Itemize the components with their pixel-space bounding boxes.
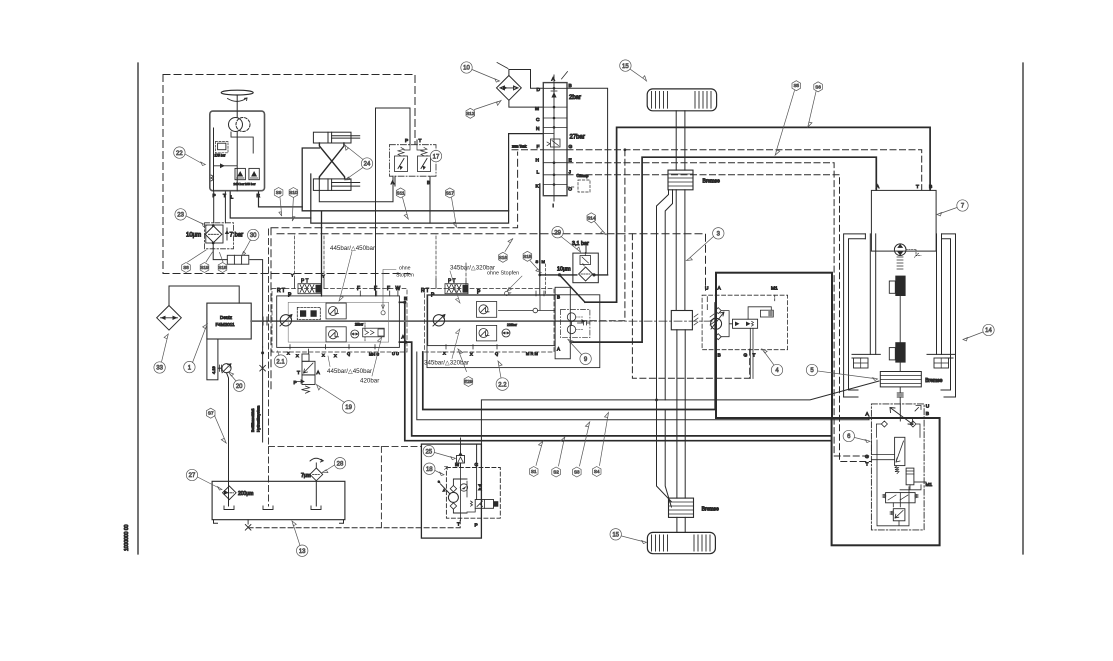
heavy line A front axle [570, 157, 876, 342]
balloon 22 [174, 147, 185, 158]
svg-text:Befüllanschluß: Befüllanschluß [251, 408, 255, 432]
heavy line rear axle B [399, 302, 831, 440]
svg-text:Hydrauliksystem: Hydrauliksystem [257, 406, 261, 432]
svg-text:ohne: ohne [399, 266, 411, 272]
svg-text:G: G [744, 353, 748, 359]
hex S13 [292, 187, 294, 189]
hex S16 [499, 252, 508, 262]
balloon 24 [361, 158, 372, 169]
svg-text:445bar/△450bar: 445bar/△450bar [327, 368, 372, 375]
svg-text:S15: S15 [523, 254, 532, 259]
pilot dashed drop at x=623.5 to divider [584, 150, 625, 321]
svg-text:Bremse: Bremse [702, 507, 719, 513]
svg-text:2.2: 2.2 [498, 382, 507, 388]
svg-text:L: L [537, 170, 540, 176]
svg-text:29: 29 [554, 230, 561, 236]
svg-text:W: W [396, 286, 401, 292]
svg-text:S7: S7 [208, 411, 214, 416]
balloon 13 [297, 545, 308, 556]
valve bank 2.2 [421, 234, 555, 357]
svg-text:S14: S14 [587, 215, 596, 220]
engine 1 Deutz [207, 303, 251, 380]
hexagon S-labels [182, 81, 823, 477]
balloon 15 bottom [610, 529, 621, 540]
balloons and hex labels [154, 60, 994, 557]
svg-text:2bar: 2bar [569, 95, 581, 101]
svg-text:P: P [405, 138, 408, 144]
svg-text:F4M2011: F4M2011 [216, 322, 236, 327]
balloon 20 [234, 380, 245, 391]
balloon 15 top [620, 60, 631, 71]
svg-text:S9: S9 [276, 190, 282, 195]
svg-text:zum Tank: zum Tank [512, 145, 527, 149]
orbitrol steering unit 22 [210, 111, 265, 201]
balloon 2.1 [274, 355, 287, 368]
central manifold 12 [512, 75, 590, 209]
heavy line rear axle A [399, 342, 831, 436]
pilot dashed to motor4 M1 [632, 234, 749, 378]
svg-text:C: C [536, 117, 540, 123]
svg-text:G: G [865, 454, 869, 460]
balloon 19 [342, 401, 355, 414]
svg-text:18: 18 [426, 467, 433, 473]
orbitrol T drop [224, 192, 226, 223]
hex S6 [814, 82, 823, 92]
svg-text:7µm: 7µm [301, 473, 311, 479]
filter 23 [186, 223, 243, 249]
hex S19 [200, 263, 209, 273]
hex S7 [206, 408, 215, 418]
pilot dashed line G zum Tank [512, 150, 922, 190]
svg-text:A: A [552, 77, 556, 83]
hex S17 [446, 188, 455, 198]
shaft to rear wheel [677, 517, 685, 532]
tank return dashed to hand pump [248, 521, 460, 528]
hex S8 [182, 263, 191, 273]
valve17 P routing [376, 108, 411, 145]
shaft brake to gearbox [676, 190, 685, 311]
front wheel top 15 [647, 89, 716, 111]
hex S4 [592, 467, 601, 477]
svg-text:A: A [876, 184, 880, 190]
balloon 7 [957, 200, 968, 211]
svg-text:T: T [297, 370, 300, 376]
brake pilot line to brakes [481, 381, 879, 444]
svg-text:S4: S4 [594, 469, 600, 474]
balloon 1 [184, 361, 195, 372]
svg-text:S16: S16 [499, 255, 508, 260]
fill line [251, 321, 265, 442]
svg-text:Q: Q [347, 351, 350, 356]
balloon 23 [175, 209, 186, 220]
balloon 10 [461, 62, 472, 73]
svg-text:20: 20 [236, 384, 243, 390]
svg-text:P: P [294, 380, 297, 386]
svg-text:P T: P T [448, 279, 456, 285]
svg-text:15: 15 [622, 64, 629, 70]
hex S5 [792, 81, 801, 91]
hex S3 [573, 467, 582, 477]
shaft gearbox to rear brake [677, 330, 685, 498]
svg-text:13: 13 [299, 549, 306, 555]
svg-text:H: H [536, 158, 540, 164]
filter23 to comp30 [213, 248, 262, 347]
hex S1 [529, 467, 538, 477]
frame left border line [137, 63, 139, 554]
svg-text:22: 22 [176, 151, 183, 157]
rear axle motor block 4 [702, 273, 832, 418]
svg-text:29bar: 29bar [355, 323, 364, 327]
svg-text:M1: M1 [926, 482, 933, 488]
svg-text:F: F [374, 286, 377, 292]
svg-text:9: 9 [584, 357, 588, 363]
pilot dashed line E to valve6 G [567, 163, 871, 456]
svg-text:33: 33 [156, 366, 163, 372]
hydrostatic unit enclosure box [427, 295, 600, 368]
svg-text:X: X [334, 353, 337, 358]
hex S18 [218, 263, 227, 273]
svg-text:S12: S12 [466, 111, 475, 116]
hydrostat dashed enclosure outer [271, 152, 706, 390]
svg-text:X: X [287, 351, 290, 356]
heavy line rear loop drive [423, 303, 715, 410]
bank2.1 port ticks and labels [290, 234, 398, 349]
svg-text:T: T [457, 522, 460, 528]
hand pump unit 18 [421, 438, 500, 538]
valve bank 2.1 [272, 234, 407, 358]
balloon 28 [334, 458, 345, 469]
svg-text:445bar/△450bar: 445bar/△450bar [330, 245, 375, 252]
front brake 5 [880, 372, 942, 405]
svg-text:T: T [223, 193, 226, 199]
svg-text:228bar: 228bar [507, 323, 518, 327]
svg-text:X: X [470, 352, 473, 357]
svg-text:175 bar: 175 bar [215, 154, 227, 158]
svg-text:Y: Y [291, 273, 294, 278]
svg-text:4: 4 [775, 368, 779, 374]
svg-text:X: X [322, 353, 325, 358]
steering cylinders 24 [313, 132, 359, 190]
orbitrol L line to cylinder [230, 192, 311, 218]
svg-text:Öltemp: Öltemp [577, 174, 589, 178]
balloon 27 [186, 469, 197, 480]
svg-text:D: D [537, 87, 541, 93]
svg-text:S2: S2 [553, 470, 559, 475]
svg-text:X: X [443, 351, 446, 356]
brake valve box 6 [832, 404, 940, 546]
svg-text:S3: S3 [574, 470, 580, 475]
svg-text:7: 7 [961, 204, 965, 210]
svg-text:24: 24 [364, 162, 371, 168]
svg-text:28: 28 [337, 461, 344, 467]
svg-text:F: F [387, 286, 390, 292]
pilot dashed line J to valve6 T [567, 175, 871, 462]
svg-text:6: 6 [847, 434, 851, 440]
svg-text:F: F [537, 144, 540, 150]
svg-text:A: A [557, 347, 560, 352]
svg-text:23: 23 [177, 213, 184, 219]
svg-text:R: R [257, 193, 261, 199]
frame right border line [1022, 63, 1024, 554]
steering wheel [221, 90, 253, 111]
svg-text:Bremse: Bremse [925, 378, 942, 384]
svg-text:B: B [718, 353, 721, 359]
svg-text:S19: S19 [200, 265, 209, 270]
svg-text:S5: S5 [793, 83, 799, 88]
svg-text:30: 30 [250, 233, 257, 239]
balloon 33 [154, 362, 165, 373]
svg-text:1: 1 [188, 365, 192, 371]
svg-text:19: 19 [345, 405, 352, 411]
svg-text:M1: M1 [771, 286, 778, 292]
steering line upper to manifold N [302, 148, 508, 296]
svg-text:F: F [357, 286, 360, 292]
svg-text:27: 27 [189, 473, 196, 479]
svg-text:U: U [926, 404, 930, 410]
svg-text:E29: E29 [464, 379, 473, 384]
engine shaft to pumps [251, 317, 584, 325]
svg-text:S18: S18 [218, 265, 227, 270]
orbitrol R line to cylinder [259, 192, 303, 207]
steering line lower N riser [311, 134, 544, 224]
svg-text:B: B [404, 296, 407, 301]
rear brake [669, 498, 720, 517]
svg-text:O: O [568, 187, 572, 193]
air filter 33 [157, 286, 240, 335]
svg-text:17: 17 [433, 154, 440, 160]
hex S2 [552, 467, 561, 477]
shaft top wheel to brake [676, 111, 685, 170]
svg-text:P T: P T [301, 279, 309, 285]
balloon 17 [430, 150, 441, 161]
hex S11 [396, 188, 405, 198]
svg-text:S17: S17 [446, 190, 455, 195]
svg-text:T: T [866, 462, 869, 468]
svg-text:200µm: 200µm [238, 491, 253, 497]
orbitrol P down to filter23 [213, 192, 215, 223]
svg-text:Deutz: Deutz [220, 315, 233, 320]
svg-text:T: T [916, 184, 919, 190]
svg-text:A: A [317, 370, 321, 376]
svg-text:10µm: 10µm [557, 267, 571, 273]
svg-text:Stopfen: Stopfen [396, 273, 414, 279]
valve17 B down [429, 176, 431, 223]
svg-text:T: T [419, 138, 422, 144]
rear wheel 15 [647, 532, 715, 553]
svg-text:420bar: 420bar [360, 378, 379, 385]
steering dashed enclosure [163, 75, 415, 274]
balloon 14 [983, 324, 994, 335]
svg-text:N: N [536, 126, 540, 132]
svg-text:4.19: 4.19 [211, 365, 216, 374]
svg-text:15: 15 [612, 533, 619, 539]
heavy line B front axle [585, 127, 930, 302]
steering priority line [375, 108, 377, 296]
svg-text:Y: Y [322, 274, 325, 279]
hex S9 [274, 188, 283, 198]
svg-text:B: B [557, 295, 560, 300]
balloon 30 [248, 229, 259, 240]
svg-text:345bar/△320bar: 345bar/△320bar [424, 360, 469, 367]
balloon 2.2 [496, 378, 509, 391]
svg-text:10: 10 [463, 66, 470, 72]
transfer gearbox [671, 311, 692, 330]
steering line valve17 A [319, 176, 393, 202]
heavy supply from manifold K [540, 184, 608, 302]
hex E29 [464, 377, 473, 387]
accumulator charging valve 29 [557, 241, 598, 283]
svg-text:P: P [475, 523, 478, 529]
front axle motor 7 [871, 184, 936, 372]
svg-text:M R M: M R M [526, 351, 538, 356]
hex S14 [587, 213, 596, 223]
svg-text:Q: Q [495, 351, 498, 356]
svg-text:3: 3 [717, 232, 721, 238]
svg-text:P: P [213, 193, 216, 199]
svg-text:ohne Stopfen: ohne Stopfen [487, 271, 519, 277]
svg-text:25: 25 [425, 449, 432, 455]
balloon 6 [843, 430, 854, 441]
balloon 9 [580, 353, 591, 364]
filter 10 [497, 63, 568, 108]
top brake [668, 170, 720, 190]
svg-text:A: A [402, 335, 405, 340]
balloon 29 [552, 227, 563, 238]
svg-text:U: U [705, 286, 709, 292]
svg-text:R T: R T [421, 288, 429, 294]
svg-text:27bar: 27bar [570, 135, 585, 141]
free text labels [327, 245, 522, 385]
svg-text:B: B [926, 411, 929, 417]
svg-text:10µm: 10µm [186, 233, 201, 239]
balloon 18 [424, 463, 435, 474]
svg-text:1000000 00: 1000000 00 [124, 524, 130, 551]
svg-text:G: G [569, 144, 573, 150]
svg-text:B: B [427, 180, 430, 186]
line S3 to valve6 A [417, 352, 869, 420]
pump 20 [218, 364, 231, 482]
svg-text:7 bar: 7 bar [230, 233, 244, 239]
svg-text:S11: S11 [397, 190, 405, 195]
svg-text:S1: S1 [531, 469, 537, 474]
svg-text:X: X [296, 353, 299, 358]
svg-text:240 bar 240 bar: 240 bar 240 bar [234, 182, 256, 186]
svg-text:S6: S6 [815, 84, 821, 89]
hex S12 [466, 108, 475, 118]
balloon 5 [806, 364, 817, 375]
svg-text:5: 5 [810, 368, 814, 374]
orifice block 30 [227, 255, 249, 264]
svg-text:A: A [391, 180, 395, 186]
balloon 3 [713, 228, 724, 239]
mech shaft dashdot to rear motor [584, 320, 719, 322]
hex S10 [289, 188, 298, 198]
svg-text:S8: S8 [183, 265, 189, 270]
svg-text:2.1: 2.1 [276, 359, 285, 365]
svg-text:M: M [535, 106, 539, 112]
svg-text:14: 14 [985, 328, 992, 334]
balloon 4 [771, 364, 782, 375]
svg-text:M: M [542, 259, 545, 264]
manifold B line down [567, 88, 608, 275]
svg-text:R T: R T [277, 288, 285, 294]
valve 17 brake valve [389, 138, 436, 186]
svg-text:U U: U U [392, 351, 399, 356]
svg-text:K: K [536, 184, 540, 190]
pilot valve 19 [294, 349, 321, 393]
svg-text:B: B [929, 184, 932, 190]
svg-text:L: L [231, 195, 234, 201]
svg-text:S: S [536, 259, 539, 264]
svg-text:Bremse: Bremse [703, 179, 720, 185]
brake line to bottom brake [657, 400, 672, 507]
svg-text:A: A [718, 286, 722, 292]
flow divider 9 [555, 287, 590, 359]
balloon 25 [423, 445, 434, 456]
hex S15 [523, 251, 532, 261]
front axle housing 14 [844, 234, 956, 397]
svg-text:E: E [569, 158, 572, 164]
brake line to top brake [657, 190, 673, 400]
tank 13 [212, 229, 421, 530]
svg-text:S10: S10 [289, 190, 298, 195]
svg-text:I: I [553, 203, 554, 209]
